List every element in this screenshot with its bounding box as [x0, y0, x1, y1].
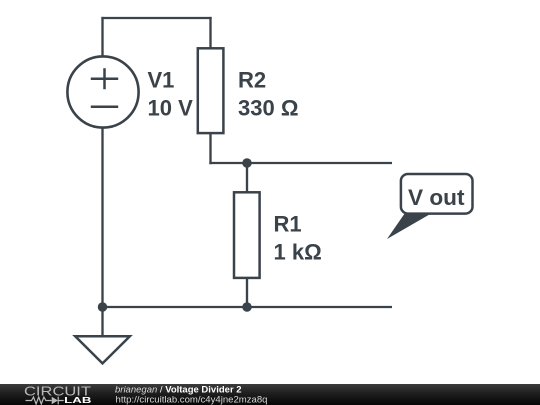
voltage source V1 body: [67, 56, 138, 127]
wire R2 top lead: [209, 17, 211, 49]
wire top horizontal net V1+ to R2: [101, 17, 211, 19]
V1 minus sign: [91, 106, 118, 109]
wire bottom horizontal ground net: [103, 306, 393, 308]
resistor R2 body: [198, 48, 224, 133]
wire V1 negative lead: [101, 127, 103, 307]
wire R1 bottom lead: [246, 278, 248, 308]
svg-text:http://circuitlab.com/c4y4jne2: http://circuitlab.com/c4y4jne2mza8q: [116, 395, 268, 405]
svg-text:10 V: 10 V: [148, 96, 194, 121]
CircuitLab logo resistor-diode squiggle: [26, 397, 64, 405]
annotation V out callout tail: [387, 213, 432, 239]
svg-text:R2: R2: [238, 68, 266, 93]
node junction dot mid (Vout net): [242, 158, 252, 168]
wire mid horizontal net Vout: [209, 162, 392, 164]
ground symbol: [75, 336, 130, 363]
wire V1 positive lead: [101, 17, 103, 57]
wire ground lead: [101, 307, 103, 336]
footer bar: [0, 384, 540, 405]
node junction dot bottom R1: [242, 302, 252, 312]
wire R2 bottom lead: [209, 133, 211, 165]
wire R1 top lead: [246, 163, 248, 193]
svg-text:330 Ω: 330 Ω: [238, 96, 298, 121]
annotation V out callout bubble: [401, 174, 473, 214]
svg-text:LAB: LAB: [64, 395, 91, 405]
V1 plus sign: [91, 68, 118, 89]
svg-text:V out: V out: [408, 185, 465, 210]
node junction dot bottom left: [98, 302, 108, 312]
resistor R1 body: [234, 192, 260, 278]
CircuitLab logo diode triangle: [52, 397, 58, 404]
svg-text:R1: R1: [274, 212, 302, 237]
svg-text:V1: V1: [148, 68, 175, 93]
svg-text:1 kΩ: 1 kΩ: [274, 240, 322, 265]
